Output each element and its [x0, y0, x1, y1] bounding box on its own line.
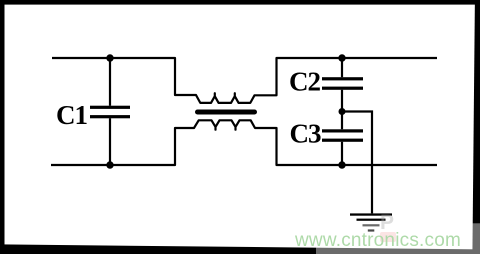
- svg-text:www.cntronics.com: www.cntronics.com: [294, 230, 461, 251]
- svg-text:C3: C3: [290, 119, 321, 149]
- svg-text:C1: C1: [56, 100, 87, 130]
- svg-text:C2: C2: [289, 66, 320, 96]
